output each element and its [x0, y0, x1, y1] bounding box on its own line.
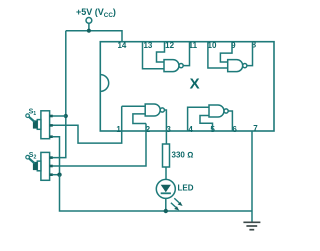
junction dot S2 bottom: [57, 173, 61, 177]
wire LED to rail: [165, 198, 167, 211]
wire BR output to pin 6: [228, 111, 232, 131]
wire +5V top rail: [66, 31, 122, 42]
junction dot LED rail: [164, 209, 168, 213]
svg-text:14: 14: [117, 41, 126, 50]
switch S2: [26, 152, 53, 180]
switch S1: [26, 111, 53, 139]
junction dot power: [87, 29, 91, 33]
NAND gate U1 top-left: [164, 60, 183, 72]
IC notch: [100, 75, 108, 92]
wire TL output to pin 11: [183, 42, 189, 66]
wire pin 13 to TL lower input: [143, 42, 165, 69]
wire pin 1 to BL upper input: [122, 105, 146, 107]
svg-text:7: 7: [253, 124, 258, 133]
NAND gate U1 bottom-right: [209, 105, 228, 117]
wire S1 top contact to rail: [53, 115, 66, 117]
svg-text:1: 1: [116, 125, 121, 134]
wire S1 bottom to S2 bottom: [53, 137, 60, 175]
svg-text:12: 12: [165, 41, 174, 50]
NAND gate U1 bottom-left: [145, 104, 164, 116]
wire terminal to rail: [88, 23, 90, 30]
junction dot S1 top tap: [64, 114, 68, 118]
svg-text:+5V (VCC): +5V (VCC): [76, 7, 116, 19]
wire pin 12 to TL upper input: [157, 42, 165, 62]
wire pin 2 to BL lower input: [133, 114, 146, 124]
wire pin 4 to BR upper input: [188, 107, 209, 131]
wire S2 bottom contact stub: [53, 174, 60, 176]
wire TR output to pin 8: [247, 42, 253, 66]
power terminal +5V: [86, 18, 92, 24]
svg-text:LED: LED: [178, 184, 194, 193]
wire ground rail: [60, 175, 253, 211]
ground: [243, 222, 260, 229]
wire pin 5 to BR lower input: [200, 116, 213, 132]
LED D1: [156, 179, 175, 198]
LED light arrow 2: [171, 203, 179, 211]
resistor R1: [163, 144, 170, 167]
wire pin 7 to ground: [251, 131, 253, 222]
svg-text:X: X: [190, 75, 200, 92]
NAND gate U1 top-right: [228, 60, 247, 72]
IC U1 body: [100, 42, 274, 131]
wire BL output to pin 3: [164, 110, 166, 144]
svg-text:10: 10: [208, 41, 217, 50]
wire S2 common to pin 2: [53, 124, 146, 167]
wire resistor to LED: [165, 167, 167, 180]
LED light arrow 1: [174, 198, 182, 206]
wire pin 9 to TR upper input: [220, 42, 232, 62]
svg-text:13: 13: [143, 41, 152, 50]
wire left rail down to S2 top: [53, 31, 66, 158]
wire pin 10 to TR lower input: [208, 42, 228, 68]
svg-text:4: 4: [188, 125, 193, 134]
svg-text:330 Ω: 330 Ω: [172, 151, 194, 160]
wire S1 common to pin 1: [51, 106, 122, 143]
